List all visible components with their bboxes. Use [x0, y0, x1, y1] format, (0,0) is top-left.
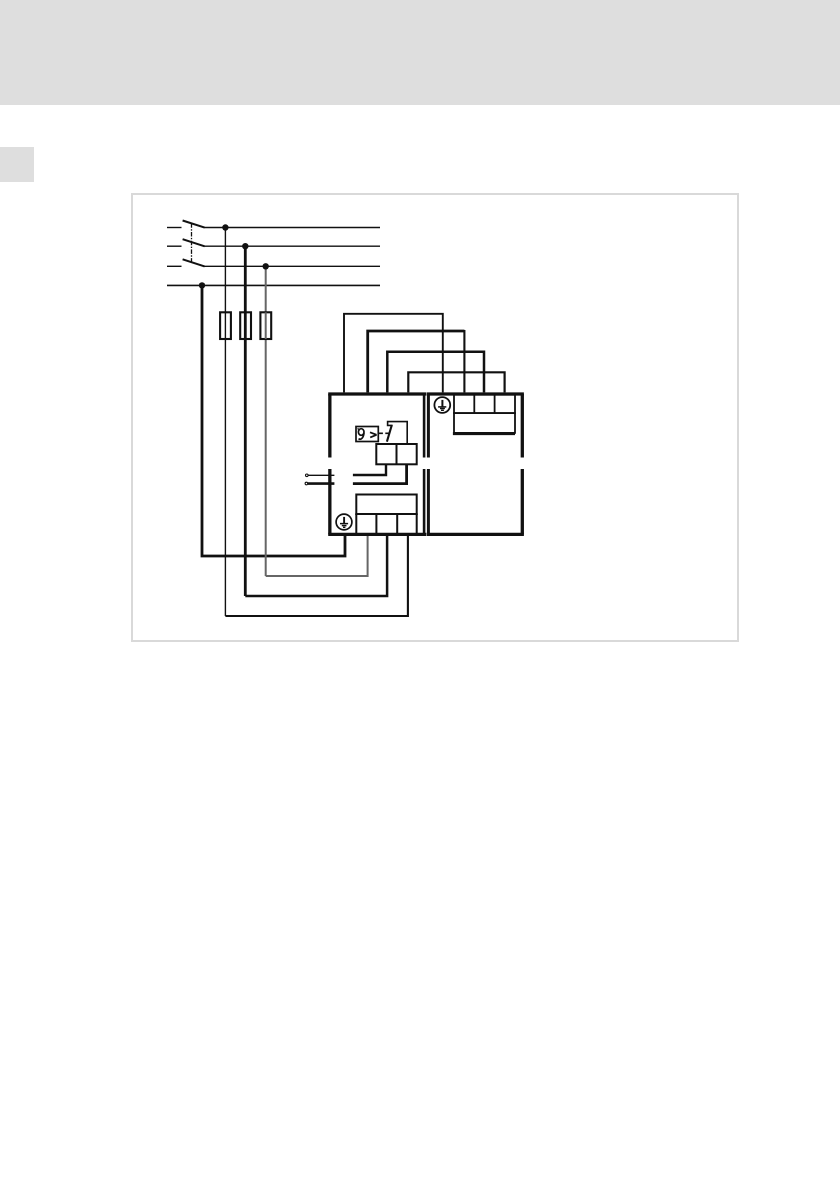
- figure frame: [131, 193, 739, 642]
- sensor lead 1 terminal circle: [306, 474, 309, 477]
- terminal block power unit top (3 cells): [454, 395, 515, 413]
- terminal block power unit thick base: [453, 432, 515, 435]
- sensor lead 2: [308, 482, 334, 485]
- thermostat label theta glyph: [358, 429, 365, 440]
- wire L3 supply line: [167, 265, 380, 267]
- switch blade pole 3: [183, 259, 205, 266]
- ground symbol controller: [336, 514, 352, 530]
- node PE tap: [199, 282, 205, 288]
- wire bridge L2: [387, 352, 484, 393]
- wire L1 drop: [224, 228, 226, 617]
- switch Q1 mechanical linkage: [191, 223, 193, 261]
- wire bridge L3: [368, 331, 465, 392]
- sensor lead 2 terminal circle: [305, 482, 308, 485]
- ground symbol power unit: [434, 397, 450, 413]
- wire PE drop and return: [202, 285, 345, 556]
- wire L2 supply line: [167, 245, 380, 247]
- wire L2 return: [245, 533, 387, 596]
- terminal block middle (2 cells): [376, 444, 416, 464]
- wire bridge L1: [408, 372, 504, 392]
- switch blade pole 1: [183, 221, 205, 228]
- fuse F3 wire through: [265, 312, 267, 339]
- controller box U1 enclosure: [328, 394, 426, 534]
- thermal contact fixed hook: [388, 422, 408, 444]
- terminal block bottom (3 cells): [355, 514, 417, 534]
- fuse F2: [240, 312, 251, 339]
- wire bridge PE (controller to power unit): [344, 314, 443, 393]
- thermal contact blade: [387, 425, 392, 442]
- fuse F3: [260, 312, 271, 339]
- terminal block power unit merged cell: [454, 413, 515, 433]
- fuse F1 wire through: [224, 312, 226, 339]
- side tab: [0, 147, 34, 182]
- thermostat label greater-than glyph: [370, 432, 377, 437]
- thermostat symbol box: [356, 427, 378, 442]
- node L1 tap: [222, 224, 228, 230]
- power unit box U2 enclosure: [427, 394, 524, 534]
- terminal block bottom row header: [356, 495, 416, 515]
- wire L1 return: [225, 533, 408, 616]
- wire L3 return (grey): [266, 533, 368, 576]
- fuse F1: [220, 312, 231, 339]
- wire PE supply line: [167, 284, 380, 286]
- node L2 tap: [242, 243, 248, 249]
- sensor lead 1: [308, 474, 334, 476]
- thermostat dashed link: [379, 432, 390, 434]
- fuse F2 wire through: [244, 312, 247, 339]
- node L3 tap: [263, 263, 269, 269]
- header band: [0, 0, 840, 105]
- wire from terminal A to sensor: [353, 464, 386, 475]
- wire from terminal B to sensor: [353, 464, 407, 483]
- wire L3 drop (grey): [265, 266, 267, 576]
- wire L1 supply line: [167, 227, 380, 229]
- switch blade pole 2: [183, 239, 205, 246]
- wire L2 drop: [244, 246, 247, 596]
